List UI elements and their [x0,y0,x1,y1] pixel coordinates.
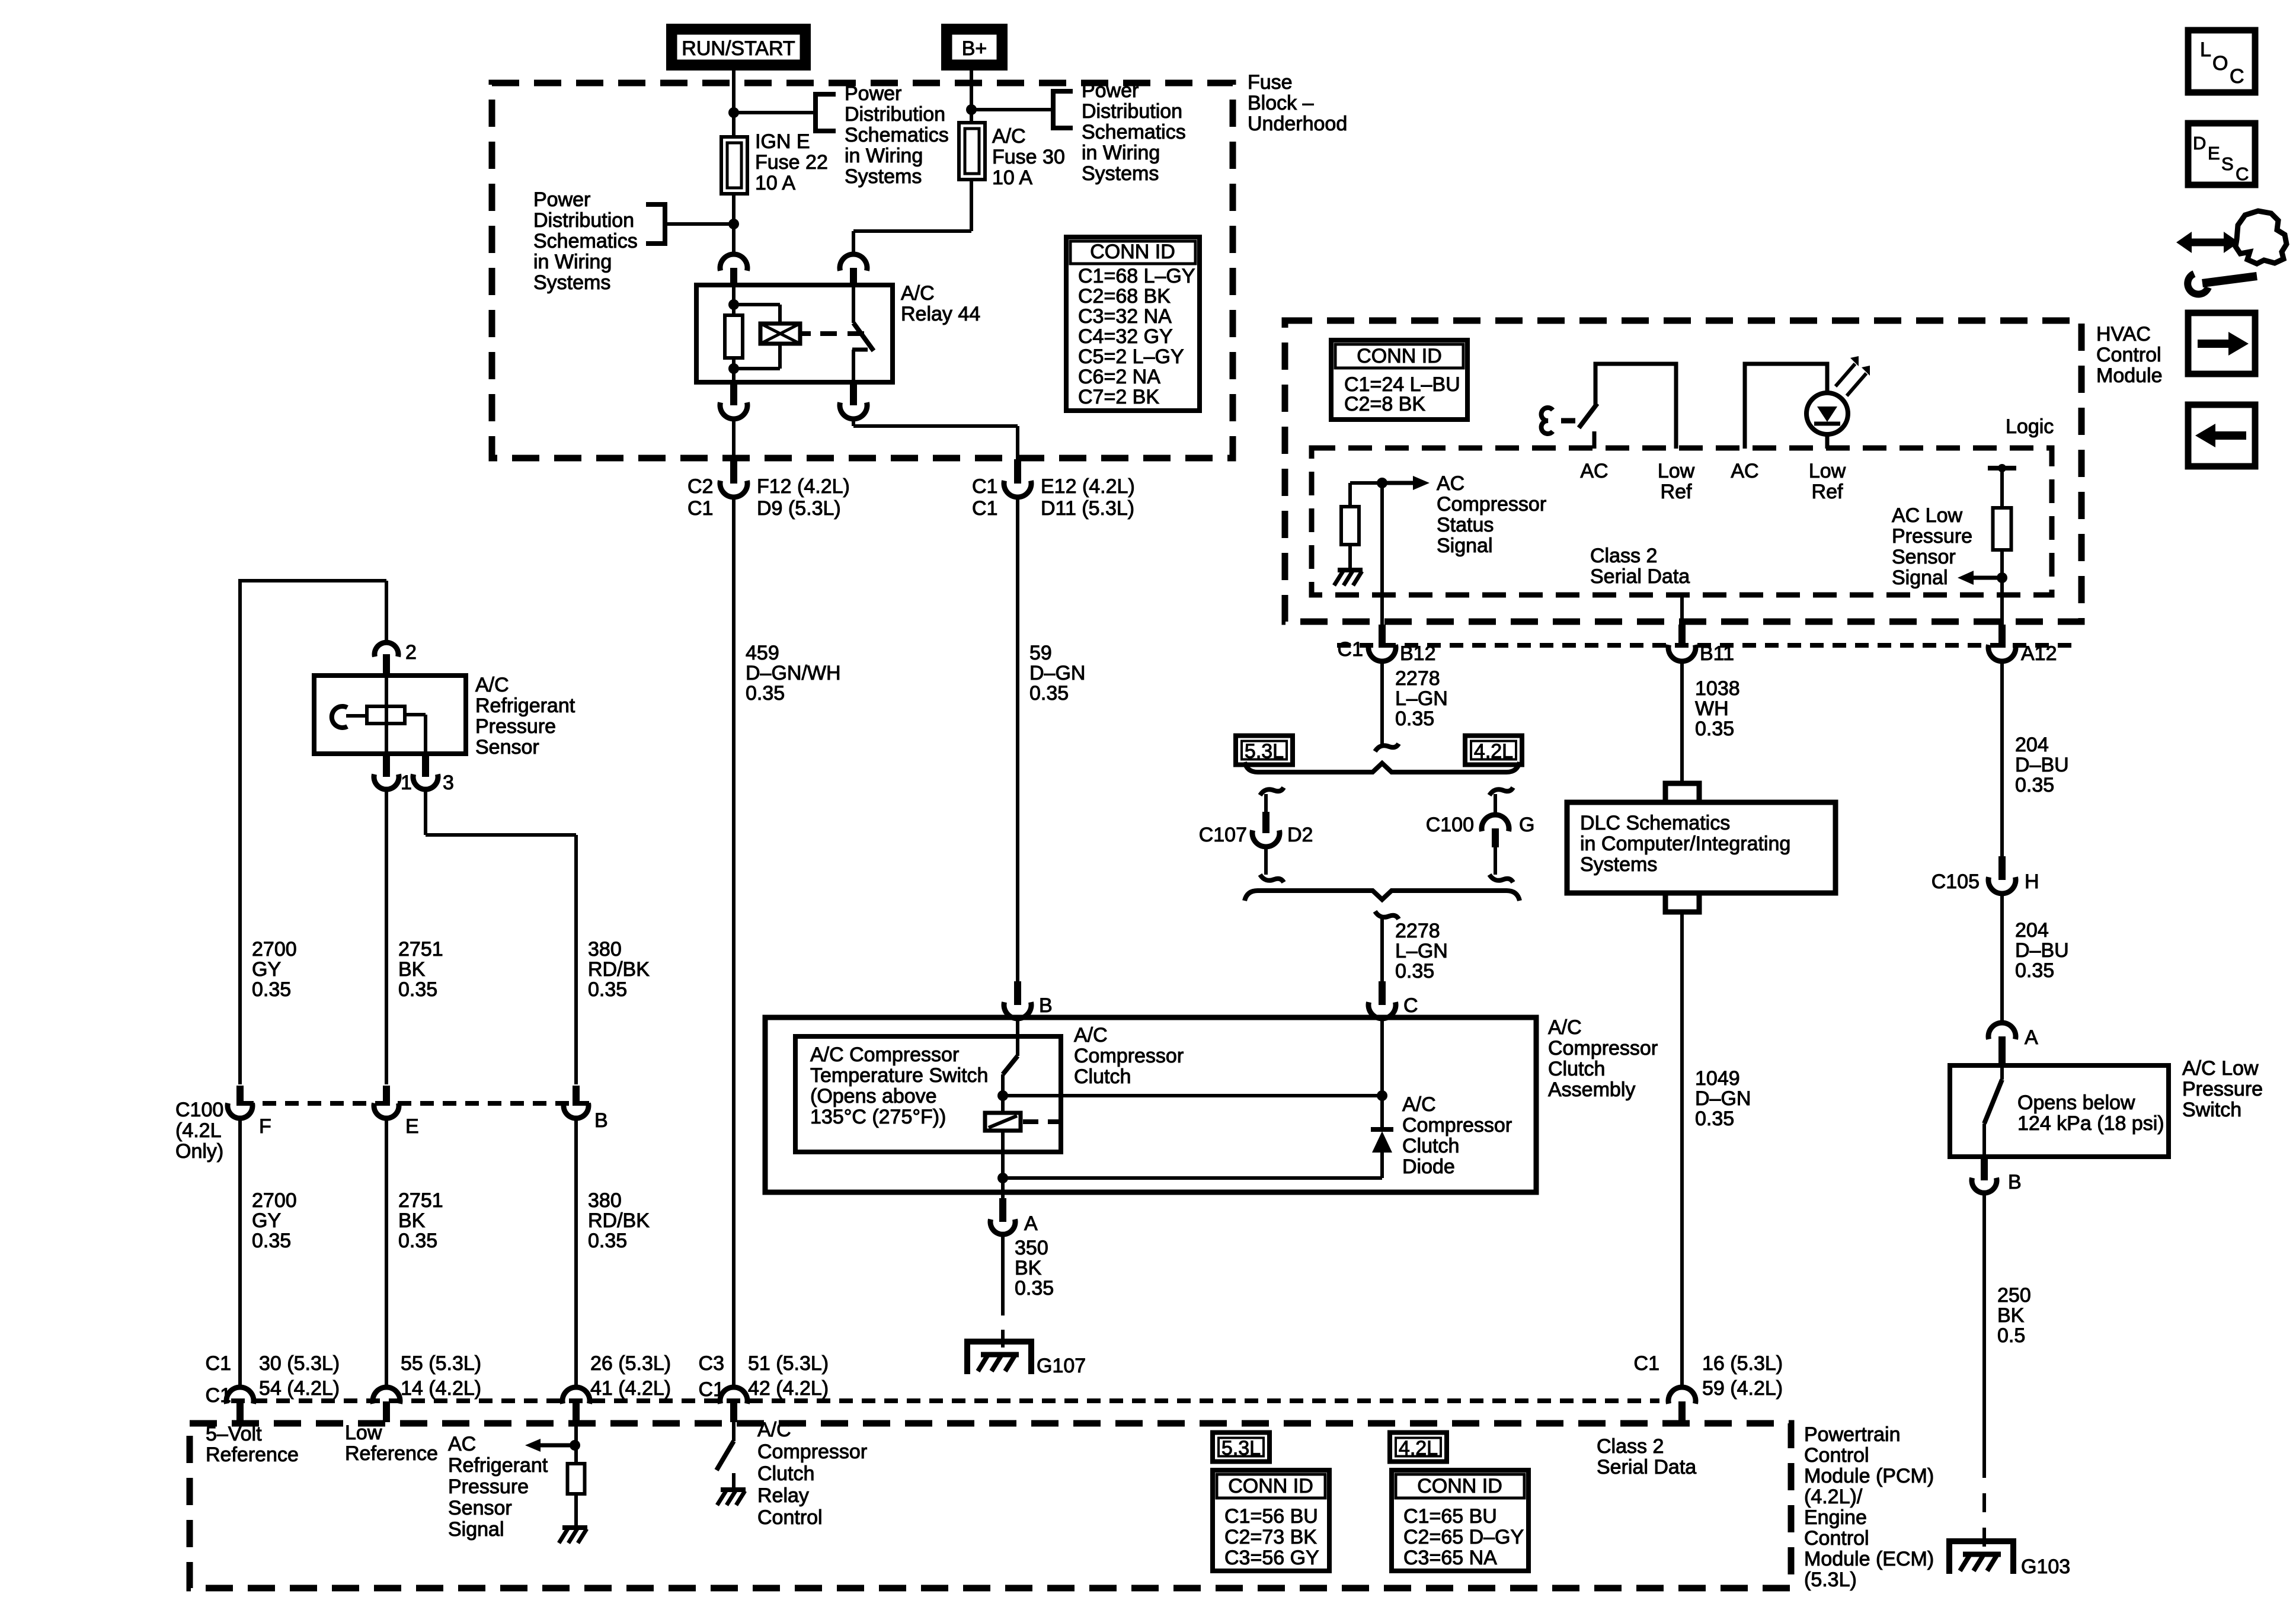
icon forward arrow box [2188,313,2255,374]
wire 380 RD/BK upper [424,789,427,835]
svg-text:4.2L: 4.2L [1399,1437,1438,1459]
relay coil loop wires [734,303,780,306]
DLC top bracket [1665,783,1699,802]
relay solenoid stub [800,331,811,336]
hook at split bottom [1375,911,1399,919]
A/C refrigerant pressure sensor box [314,676,466,754]
CONN ID table (fuse block) [1066,237,1200,411]
wire 1038 WH [1680,661,1684,783]
LED triangle [1817,406,1837,422]
DLC schematics box [1567,802,1835,893]
connector C100 F [236,1086,244,1106]
DLC bottom bracket [1665,893,1699,912]
connector B (pressure switch) [1981,1157,1988,1180]
junction AC low pressure sensor signal [1997,572,2007,583]
svg-text:26 (5.3L): 26 (5.3L) [590,1352,671,1375]
hook at split top [1375,744,1399,751]
wire fuse30 to relay switch [970,180,973,231]
svg-text:Logic: Logic [2006,415,2054,438]
svg-text:5.3L: 5.3L [1245,740,1284,763]
wire B+ to fuse 30 [970,71,973,123]
wire 2751 BK lower [385,1119,388,1388]
svg-text:C100: C100 [1426,814,1474,836]
junction below coil [728,363,739,374]
svg-text:C1: C1 [206,1384,231,1407]
relay coil [725,315,743,358]
svg-text:G: G [1519,814,1534,836]
PCM connector dashed line [231,1398,1659,1403]
svg-text:O: O [2212,52,2228,75]
relay actuation dashes [820,331,874,336]
sensor connector pin 1 [383,754,390,777]
svg-text:C3: C3 [699,1352,724,1375]
relay coil wire top [732,286,736,315]
pressure switch blade [2000,1065,2004,1080]
svg-text:4.2L: 4.2L [1474,740,1513,763]
svg-text:L: L [2200,39,2211,61]
connector C100 dashed line [240,1101,589,1106]
ground (relay control) [721,1487,746,1492]
wire pcm sensor branch [574,1422,578,1526]
svg-text:C100(4.2LOnly): C100(4.2LOnly) [175,1099,223,1163]
relay solenoid valve box [760,324,800,344]
relay switch wire top [852,286,855,323]
connector C100 B [573,1086,580,1106]
relay bottom-right connector [850,382,857,405]
junction diode top [1377,1090,1387,1101]
pcm sense resistor [568,1464,585,1494]
LED circle [1806,393,1848,434]
connector C3/C1 (relay control) [720,1387,747,1404]
wire 5V reference loop [240,579,386,582]
icon LOC box [2188,30,2255,92]
ground (pcm sensor) [562,1525,587,1530]
svg-text:16 (5.3L): 16 (5.3L) [1702,1352,1783,1375]
svg-text:2: 2 [405,641,417,664]
fuse A/C Fuse 30 10A [959,123,985,180]
wire 2278 lower [1380,918,1384,981]
brace bottom [1245,891,1520,901]
fuse block dashed box [492,83,1233,458]
wire to power distribution bracket (right) [971,108,1053,111]
svg-text:C1: C1 [1338,638,1363,661]
svg-text:E12 (4.2L)D11 (5.3L): E12 (4.2L)D11 (5.3L) [1041,475,1135,520]
connector A (pressure switch) [1988,1023,2016,1039]
ground G107 [967,1342,1031,1374]
bracket power distribution schematics (left) [646,204,665,244]
svg-text:F12 (4.2L)D9 (5.3L): F12 (4.2L)D9 (5.3L) [757,475,850,520]
CONN ID table (PCM 4.2L) [1392,1470,1528,1571]
connector (low ref) [373,1387,400,1404]
wire B11 inside HVAC [1680,595,1684,625]
status pull resistor [1341,507,1359,545]
arrow AC compressor status signal [1382,481,1413,485]
A/C compressor temperature switch box [795,1036,1061,1152]
wire below C107 [1264,846,1268,875]
wire B into assembly [1016,1017,1019,1056]
wire branch C107 [1264,794,1268,812]
svg-text:B11: B11 [1700,642,1734,665]
badge 5.3L (PCM) [1213,1433,1269,1462]
pressure sensor element [332,706,347,728]
svg-text:B: B [2008,1171,2022,1193]
svg-text:AC: AC [1731,460,1758,482]
junction clutch return [997,1173,1008,1183]
svg-text:54 (4.2L): 54 (4.2L) [259,1377,340,1400]
svg-text:A: A [2025,1026,2038,1049]
svg-text:30 (5.3L): 30 (5.3L) [259,1352,340,1375]
PCM dashed box [190,1423,1791,1588]
wire below C100 G [1494,847,1497,875]
svg-text:C: C [2230,65,2244,88]
connector B (clutch assembly) [1014,981,1021,1005]
A/C low pressure switch box [1950,1065,2169,1157]
svg-text:41 (4.2L): 41 (4.2L) [590,1377,671,1400]
wire 204 D-BU upper [2000,661,2004,856]
sensor internal wire [385,676,388,754]
svg-text:A12: A12 [2021,642,2057,665]
LED wire bottom [1825,434,1830,449]
svg-text:A: A [1024,1212,1038,1235]
relay switch bottom contact [852,348,868,352]
svg-text:C1=56 BUC2=73 BKC3=56 GY: C1=56 BUC2=73 BKC3=56 GY [1224,1505,1319,1569]
relay switch blade [853,323,874,351]
arrow AC low pressure sensor signal [1974,576,2002,580]
connector B11 [1678,625,1686,648]
wire 380 RD/BK lower [574,1119,578,1388]
A/C Relay 44 box [696,285,893,382]
hook branch C100 top [1489,788,1513,795]
svg-text:S: S [2221,153,2234,174]
icon wrench [2202,276,2257,283]
wire to status resistor [1350,481,1382,485]
svg-text:RUN/START: RUN/START [682,37,795,60]
wire clutch return [1003,1176,1382,1180]
wire 459 D-GN/WH [732,497,736,1388]
connector C1 (class 2) [1668,1387,1696,1404]
relay switch-side top connector [840,254,867,271]
AC switch blade [1579,404,1597,428]
junction on B+ wire [966,104,977,115]
wire C into assembly [1380,1017,1384,1096]
wire branch C100 [1494,794,1497,815]
temp switch blade [1003,1056,1018,1074]
connector C105 H [1998,856,2006,880]
svg-text:G103: G103 [2021,1555,2070,1578]
wire to connector A [1001,1178,1005,1198]
svg-text:E: E [405,1115,419,1138]
wire thermal to bottom [1001,1131,1005,1178]
sensor pull resistor [1993,508,2012,550]
svg-text:LowRef: LowRef [1658,460,1695,503]
svg-text:C: C [1403,994,1418,1017]
bracket power distribution schematics (right) [1053,91,1073,128]
CONN ID table (HVAC) [1331,340,1467,420]
svg-text:C2C1: C2C1 [687,475,713,520]
thermal element dashes [1023,1119,1061,1124]
svg-text:59 (4.2L): 59 (4.2L) [1702,1377,1783,1400]
thermal element [1001,1096,1005,1113]
fuse IGN E Fuse 22 10A [721,137,747,194]
svg-text:B: B [594,1109,608,1132]
wire fuse22 to relay [732,194,736,255]
svg-text:G107: G107 [1037,1355,1086,1377]
svg-text:CONN ID: CONN ID [1090,241,1175,263]
svg-text:D: D [2193,133,2206,153]
junction above coil [728,299,739,310]
svg-text:LowRef: LowRef [1809,460,1846,503]
svg-text:D2: D2 [1287,824,1313,846]
CONN ID table (PCM 5.3L) [1213,1470,1329,1571]
icon vehicle double arrow [2189,239,2226,247]
svg-text:C1: C1 [1634,1352,1659,1375]
badge 5.3L (split) [1236,736,1293,765]
wire RUN/START to fuse 22 [732,71,736,137]
wire 2751 BK upper [385,789,388,1084]
connector C107 D2 [1262,812,1269,833]
svg-text:51 (5.3L): 51 (5.3L) [748,1352,829,1375]
svg-text:42 (4.2L): 42 (4.2L) [748,1377,829,1400]
badge 4.2L (PCM) [1390,1433,1447,1462]
wire 2278 upper [1380,661,1384,744]
icon DESC box [2188,123,2255,185]
svg-text:C1: C1 [206,1352,231,1375]
AC switch frame [1595,364,1676,449]
wire relay to C1 connector [852,418,855,426]
wire 350 BK [1001,1234,1005,1298]
svg-text:B+: B+ [962,37,987,60]
logic dashed box [1312,448,2052,595]
relay bottom-left connector [730,382,737,405]
wire 59 D-GN [1016,497,1019,981]
svg-text:CONN ID: CONN ID [1228,1475,1313,1497]
connector A12 [1998,625,2006,648]
svg-text:CONN ID: CONN ID [1357,345,1442,367]
wire to power distribution bracket (left) [665,222,734,226]
connector C2/C1 F12 [730,459,737,484]
svg-text:C: C [2236,164,2249,184]
connector C (clutch assembly) [1379,981,1386,1005]
HVAC control module dashed box [1285,321,2081,622]
hook branch C107 top [1260,788,1284,795]
LED cathode bar [1814,422,1840,426]
AC switch dash [1561,418,1575,424]
ground G103 [1949,1541,2013,1574]
AC switch contact curl [1542,408,1553,434]
svg-text:AC: AC [1580,460,1608,482]
junction AC compressor status [1377,478,1387,488]
junction on RUN/START wire [728,107,739,118]
connector C1/C1 E12 [1014,459,1021,484]
sensor connector pin 2 [375,642,398,657]
pcm relay control switch [732,1422,736,1441]
wire 2700 GY lower [238,1119,242,1388]
power feed label B+ [946,28,1003,66]
wire resistor to ground [1348,545,1352,568]
sensor connector pin 3 [422,754,429,777]
wire B12 inside HVAC [1380,488,1384,625]
wire relay to C2 connector [732,418,736,459]
icon back arrow box [2188,405,2255,466]
svg-text:14 (4.2L): 14 (4.2L) [401,1377,481,1400]
brace top [1245,762,1520,772]
bracket power distribution schematics (top) [816,94,836,131]
LED frame [1745,364,1827,449]
relay coil wire bottom [732,358,736,382]
connector C100 E [383,1086,390,1106]
connector C100 G [1482,815,1509,831]
tick AC low pressure sensor input [1988,466,2016,470]
connector A (clutch assembly) [999,1198,1006,1222]
wire 250 BK [1982,1193,1986,1459]
arrow pcm sensor signal [541,1443,576,1448]
junction pcm sensor [570,1440,580,1451]
icon vehicle outline [2236,211,2287,264]
svg-text:E: E [2208,143,2220,164]
connector C1 (5V ref) [226,1387,254,1404]
svg-text:B12: B12 [1400,642,1436,665]
svg-text:C1C1: C1C1 [972,475,997,520]
connector (pressure signal) [562,1387,590,1404]
LED emission arrows [1835,364,1855,386]
junction to left bracket [728,219,739,229]
wire clutch feed [1003,1094,1382,1097]
AC switch input leg [1593,431,1597,449]
hook branch C100 bottom [1489,875,1513,882]
A/C compressor clutch assembly box [765,1017,1536,1192]
svg-text:B: B [1039,994,1053,1017]
svg-text:1: 1 [401,772,412,794]
svg-text:H: H [2025,870,2039,893]
svg-text:3: 3 [443,772,454,794]
junction clutch feed [997,1090,1008,1101]
svg-text:CONN ID: CONN ID [1417,1475,1502,1497]
ground (status resistor) [1338,568,1363,572]
relay coil-side top connector [720,254,747,271]
wire resistor to junction [2000,550,2004,582]
svg-text:F: F [259,1115,271,1138]
wire 1049 D-GN [1680,912,1684,1388]
power feed label RUN/START [671,28,806,66]
badge 4.2L (split) [1465,736,1522,765]
hook branch C107 bottom [1260,875,1284,882]
svg-text:C1: C1 [699,1378,724,1401]
svg-text:55 (5.3L): 55 (5.3L) [401,1352,481,1375]
HVAC connector row dashed line [1337,643,2077,648]
A/C compressor clutch diode [1380,1096,1384,1129]
wire 204 D-BU lower [2000,893,2004,1023]
wire to sensor resistor [2000,468,2004,508]
svg-text:C107: C107 [1199,824,1247,846]
svg-text:5.3L: 5.3L [1221,1437,1261,1459]
svg-text:C105: C105 [1932,870,1980,893]
wire A12 inside HVAC [2000,582,2004,625]
connector C1 B12 [1379,625,1386,648]
wire to power distribution bracket (top) [734,111,816,114]
